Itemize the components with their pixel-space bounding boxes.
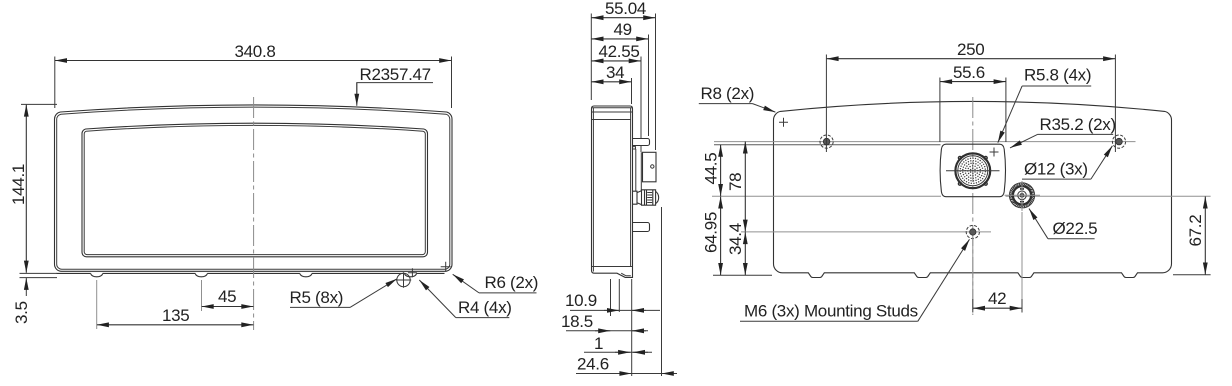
dim 250 line xyxy=(827,58,1116,60)
dim 144.1 extension lines xyxy=(21,103,57,105)
FRONT DIMENSIONS xyxy=(9,42,538,329)
dim 24.6 line xyxy=(576,373,672,375)
front bottom stud bump 1 xyxy=(91,273,103,277)
dim 42.55 line xyxy=(592,60,641,62)
front bottom stud bump 3 xyxy=(300,273,312,277)
side bottom bezel line xyxy=(592,266,633,268)
svg-text:55.04: 55.04 xyxy=(605,0,646,18)
side top tab xyxy=(633,139,650,146)
FRONT VIEW xyxy=(55,97,453,330)
side top bezel lines xyxy=(592,112,633,120)
rear connector cross lines xyxy=(946,170,1000,172)
svg-text:34.4: 34.4 xyxy=(726,223,745,255)
side bracket lines xyxy=(636,149,642,191)
dim 44.5 line xyxy=(720,145,722,196)
side M12 plug mount xyxy=(633,191,642,205)
rear shelf line xyxy=(714,144,941,146)
R4 corner center mark xyxy=(408,268,417,277)
rear small connector keys xyxy=(1020,189,1024,202)
rear top-right screw xyxy=(1112,135,1125,148)
rear connector lugs xyxy=(958,156,987,185)
dim 67.2 line xyxy=(1204,197,1206,275)
dim 64.95 line xyxy=(720,197,722,276)
dim 18.5 line xyxy=(566,330,648,332)
svg-text:67.2: 67.2 xyxy=(1186,215,1205,247)
R5 center mark circled xyxy=(396,272,411,287)
svg-text:64.95: 64.95 xyxy=(702,212,721,253)
side M12 plug body xyxy=(642,190,656,205)
svg-text:10.9: 10.9 xyxy=(565,291,597,310)
svg-text:R5.8 (4x): R5.8 (4x) xyxy=(1024,66,1091,85)
dim 55.6 ext lines xyxy=(940,78,1006,143)
REAR DIMENSIONS xyxy=(699,40,1206,321)
rear small connector outer xyxy=(1009,183,1034,208)
front screen inner parallel line xyxy=(84,125,425,254)
svg-text:R6 (2x): R6 (2x) xyxy=(485,273,539,292)
dim 45 line xyxy=(202,306,254,308)
svg-text:135: 135 xyxy=(162,306,189,325)
svg-text:78: 78 xyxy=(726,173,745,191)
svg-text:1: 1 xyxy=(594,334,603,353)
svg-text:45: 45 xyxy=(218,287,236,306)
rear connector line xyxy=(712,195,1211,197)
svg-text:34: 34 xyxy=(606,63,624,82)
rear bottom notch 1 xyxy=(808,272,824,278)
svg-text:18.5: 18.5 xyxy=(561,312,593,331)
side bottom step xyxy=(621,273,631,276)
dim 250 ext lines xyxy=(826,55,1115,153)
side body right edge inner line xyxy=(630,108,632,267)
front outer body inner parallel line xyxy=(57,107,450,269)
svg-text:R2357.47: R2357.47 xyxy=(360,65,431,84)
bottom ext line back face xyxy=(631,279,633,376)
dim 49 ext xyxy=(648,35,650,137)
rear bottom ref line left xyxy=(713,274,772,276)
rear small connector pin xyxy=(1018,191,1027,200)
dim 3.5 arrow xyxy=(25,278,27,296)
rear small connector bold ring xyxy=(1013,186,1031,204)
R5.8 center mark xyxy=(990,148,999,157)
svg-text:340.8: 340.8 xyxy=(235,42,276,61)
dim 55.04 line xyxy=(592,17,656,19)
svg-text:R5 (8x): R5 (8x) xyxy=(290,288,344,307)
front bottom stud bump 2 xyxy=(195,273,207,277)
bottom ext line connector tip xyxy=(661,207,663,376)
rear screw line xyxy=(714,141,1136,143)
R8 corner mark xyxy=(779,118,788,127)
dim 1 line xyxy=(584,351,652,353)
rear bottom notch 3 xyxy=(1018,272,1034,278)
svg-text:M6 (3x) Mounting Studs: M6 (3x) Mounting Studs xyxy=(744,302,918,321)
svg-text:R35.2 (2x): R35.2 (2x) xyxy=(1040,115,1116,134)
dim 135 line xyxy=(97,324,254,326)
SIDE VIEW xyxy=(592,106,659,277)
rear connector outer ring xyxy=(955,153,990,188)
svg-text:24.6: 24.6 xyxy=(577,355,609,374)
rear stud line xyxy=(741,231,991,233)
front bottom housing line xyxy=(57,272,445,274)
R6 corner center mark xyxy=(441,262,451,272)
front bottom stud bump 4 xyxy=(404,273,416,277)
svg-text:144.1: 144.1 xyxy=(9,164,28,205)
rear small connector crosshair xyxy=(1005,181,1041,211)
front outer body xyxy=(55,105,453,271)
leader R2357.47 xyxy=(357,83,433,95)
dim 42 ext lines xyxy=(973,212,1022,299)
svg-text:3.5: 3.5 xyxy=(12,301,31,324)
side connector block xyxy=(643,152,657,182)
front vertical centerline xyxy=(253,97,255,330)
dim 144.1 line xyxy=(25,105,27,273)
side block hole xyxy=(651,165,654,168)
svg-text:Ø12 (3x): Ø12 (3x) xyxy=(1024,160,1088,179)
rear bottom notch 4 xyxy=(1122,272,1138,278)
svg-text:R4 (4x): R4 (4x) xyxy=(458,298,512,317)
side M12 plug threads xyxy=(647,193,652,203)
rear bottom notch 2 xyxy=(914,272,930,278)
svg-text:42.55: 42.55 xyxy=(599,42,640,61)
dim 45 extension line xyxy=(201,280,203,311)
dim 42.55 ext xyxy=(640,57,642,153)
rear body outline xyxy=(773,101,1171,272)
dim 135 extension line xyxy=(96,280,98,329)
REAR VIEW xyxy=(712,97,1211,315)
svg-text:44.5: 44.5 xyxy=(702,153,721,185)
side body left edge inner line xyxy=(592,108,633,272)
bottom ext line a xyxy=(610,279,612,316)
svg-text:55.6: 55.6 xyxy=(953,63,985,82)
dim 340.8 line xyxy=(55,60,451,62)
dim 340.8 extension lines xyxy=(55,57,452,109)
bottom ext line b xyxy=(618,279,620,312)
svg-text:250: 250 xyxy=(957,40,984,59)
rear bottom ref line right xyxy=(1173,274,1211,276)
rear top-left screw xyxy=(820,135,833,148)
rear small connector knurl xyxy=(1010,183,1035,208)
side M12 plug tip cap xyxy=(656,191,659,203)
dim 34.4 line xyxy=(744,232,746,275)
side small step under tab xyxy=(633,147,636,149)
dim 55.6 line xyxy=(940,81,1006,83)
dim 34 line xyxy=(592,81,632,83)
front screen opening xyxy=(82,123,428,257)
dim 78 line xyxy=(744,142,746,232)
side left extension line xyxy=(590,14,592,101)
svg-text:R8 (2x): R8 (2x) xyxy=(701,84,755,103)
rear vertical centerline xyxy=(972,97,974,315)
rear boss outline xyxy=(940,144,1005,197)
svg-text:Ø22.5: Ø22.5 xyxy=(1053,219,1098,238)
dim 34 ext xyxy=(631,78,633,104)
side main body xyxy=(592,106,633,277)
dim 49 line xyxy=(592,38,649,40)
rear M6 stud xyxy=(966,225,979,238)
dim 55.04 ext xyxy=(655,14,657,151)
dim 3.5 extension lines xyxy=(20,273,58,277)
side bottom tab xyxy=(633,223,650,232)
dim 42 line xyxy=(973,307,1022,309)
dim 10.9 line xyxy=(570,309,660,311)
svg-text:42: 42 xyxy=(988,289,1006,308)
SIDE DIMENSIONS xyxy=(561,0,677,376)
svg-text:49: 49 xyxy=(614,20,632,39)
rear connector pins xyxy=(959,157,986,184)
rear connector ring 2 xyxy=(958,156,988,186)
